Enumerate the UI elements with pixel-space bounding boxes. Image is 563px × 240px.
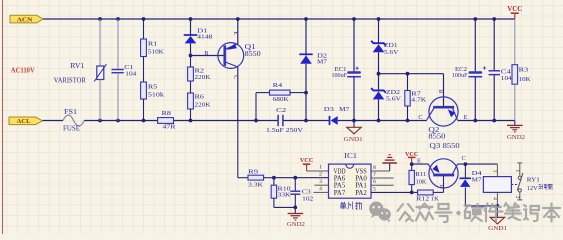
svg-text:E: E (232, 31, 238, 35)
svg-text:VCC: VCC (300, 157, 314, 164)
label RY1 12V relay (527, 177, 552, 192)
capacitor C4 104 (489, 19, 513, 121)
svg-text:ZD1: ZD1 (384, 42, 398, 49)
svg-text:8550: 8550 (443, 143, 461, 150)
svg-text:B: B (437, 90, 443, 94)
svg-text:PA5: PA5 (334, 183, 346, 190)
svg-text:220K: 220K (195, 102, 211, 109)
wire Q3 collector to relay (457, 163, 497, 165)
svg-text:1K: 1K (431, 196, 439, 203)
svg-text:102: 102 (302, 195, 313, 202)
svg-text:PA6: PA6 (334, 176, 346, 183)
resistor R6 (188, 93, 211, 121)
label microcontroller danpianji (340, 202, 362, 210)
capacitor C1 (112, 19, 138, 121)
junction dots on top rail (98, 17, 496, 21)
IC1 pin stubs right (371, 165, 412, 192)
svg-text:3.3K: 3.3K (248, 181, 263, 188)
wire C2 to D3 (284, 120, 330, 122)
svg-text:5.6V: 5.6V (386, 96, 401, 103)
svg-text:Q3: Q3 (429, 143, 441, 150)
ground for IC pin8 (382, 155, 397, 171)
svg-text:RV1: RV1 (70, 63, 84, 70)
svg-text:E: E (417, 158, 421, 165)
svg-text:104: 104 (501, 75, 513, 82)
transistor Q1 8550 (218, 31, 261, 79)
junction R11 R12 pin5 (410, 191, 414, 195)
svg-text:GND2: GND2 (507, 134, 525, 141)
svg-text:Q1: Q1 (245, 44, 256, 51)
svg-text:1: 1 (514, 170, 520, 173)
diode D1 4148 (184, 19, 213, 56)
ground GND1 right (488, 206, 507, 232)
svg-text:100uF: 100uF (452, 72, 468, 79)
svg-text:ACL: ACL (17, 118, 32, 125)
svg-text:104: 104 (125, 70, 137, 77)
wire relay bottom rail (465, 205, 497, 207)
svg-text:AC110V: AC110V (11, 65, 36, 74)
svg-text:C: C (418, 114, 422, 121)
svg-text:M7: M7 (317, 59, 328, 66)
svg-text:VSS: VSS (355, 169, 367, 176)
junction dots on bottom rail (98, 119, 409, 123)
svg-text:D3: D3 (324, 106, 335, 113)
svg-text:8550: 8550 (245, 51, 262, 58)
wire zener midpoint to R7 and Q2 base (379, 73, 444, 75)
capacitor C3 102 (290, 178, 313, 208)
IC1 pin stubs left (314, 165, 329, 193)
svg-text:IC1: IC1 (344, 152, 358, 160)
ground GND2 right (507, 121, 525, 141)
svg-text:1.5uF 250V: 1.5uF 250V (266, 127, 303, 134)
power VCC for driver (411, 157, 413, 164)
wire Q1 collector to bottom rail (237, 67, 239, 121)
svg-text:510k: 510k (148, 92, 165, 99)
svg-text:47R: 47R (163, 123, 177, 130)
svg-text:R8: R8 (162, 110, 172, 117)
relay RY1 coil (483, 164, 511, 206)
wire Q2 emitter to GND2 rail (457, 120, 514, 122)
svg-text:R4: R4 (273, 82, 283, 89)
junction R9 R10 (272, 176, 276, 180)
transistor Q3 8550 (428, 143, 465, 192)
svg-text:8550: 8550 (428, 134, 446, 141)
resistor R8 (158, 118, 174, 124)
svg-text:C: C (462, 155, 466, 162)
svg-text:8: 8 (373, 165, 376, 171)
diode D3 M7 (324, 106, 354, 125)
svg-text:PA7: PA7 (334, 190, 346, 197)
resistor R11 10K (409, 164, 427, 192)
power VCC for IC (306, 164, 308, 171)
resistor R1 (141, 19, 165, 57)
svg-text:4: 4 (319, 186, 322, 192)
junction VCC emitter (410, 162, 414, 166)
capacitor C2 1.5uF 250V (266, 107, 303, 134)
svg-text:2: 2 (319, 172, 322, 178)
svg-text:4148: 4148 (197, 33, 213, 40)
wire VCC to IC pin1 (307, 170, 329, 172)
resistor R7 4.7K (405, 74, 427, 121)
svg-text:3: 3 (319, 179, 322, 185)
svg-text:C2: C2 (276, 107, 286, 114)
resistor R5 (141, 82, 165, 121)
svg-text:33K: 33K (278, 192, 291, 199)
wire R10 C3 bottom (274, 206, 295, 208)
svg-text:12V: 12V (527, 185, 539, 192)
svg-text:6: 6 (373, 179, 376, 185)
svg-text:R9: R9 (248, 168, 259, 175)
fuse FS1 (63, 115, 84, 126)
svg-text:M7: M7 (472, 177, 483, 184)
resistor R4 680K (256, 82, 306, 121)
zener ZD1 5.6V (371, 19, 399, 74)
svg-text:R1: R1 (148, 41, 158, 48)
svg-text:FS1: FS1 (64, 109, 77, 116)
resistor R9 3.3K (248, 168, 274, 188)
svg-text:7: 7 (373, 172, 376, 178)
svg-text:B: B (438, 185, 444, 189)
svg-text:R6: R6 (195, 93, 205, 100)
wire R1 to R5 (143, 57, 145, 83)
junction zener midpoint (377, 72, 381, 76)
wire ACL to fuse (43, 120, 64, 122)
svg-text:ACN: ACN (17, 16, 33, 23)
svg-text:GND1: GND1 (344, 136, 363, 143)
wire GND1 to Q2 collector (354, 120, 427, 122)
resistor R10 33K (271, 178, 291, 208)
svg-text:C3: C3 (302, 188, 311, 195)
capacitor EC2 100uF (452, 19, 486, 121)
junction dot R4 D2 (304, 91, 308, 95)
svg-text:510K: 510K (148, 49, 164, 56)
svg-text:10K: 10K (416, 179, 427, 186)
power VCC top right (514, 13, 516, 19)
port ACL (9, 117, 43, 125)
ground GND2 middle (287, 207, 305, 227)
svg-text:4.7K: 4.7K (411, 97, 426, 104)
relay RY1 contact switch (511, 163, 523, 200)
port ACN (10, 15, 43, 23)
svg-text:VCC: VCC (507, 5, 522, 13)
svg-text:R12: R12 (416, 196, 429, 203)
svg-text:M7: M7 (339, 106, 350, 113)
svg-text:220K: 220K (195, 74, 211, 81)
svg-text:VDD: VDD (334, 169, 346, 176)
svg-text:1: 1 (319, 165, 322, 171)
resistor R12 1K (412, 190, 444, 203)
node B junction (189, 54, 193, 58)
resistor R2 (188, 56, 211, 82)
svg-text:GND2: GND2 (287, 221, 305, 228)
wire Q1 emitter to top rail (237, 19, 239, 44)
svg-text:RY1: RY1 (527, 177, 540, 184)
svg-text:4: 4 (492, 197, 498, 200)
svg-text:R5: R5 (148, 84, 158, 91)
resistor R3 10K (512, 19, 531, 121)
wire R9 to IC pin2 (274, 177, 329, 179)
svg-text:PA1: PA1 (355, 183, 367, 190)
svg-text:R3: R3 (519, 67, 529, 74)
zener ZD2 5.6V (371, 74, 401, 121)
svg-text:2: 2 (514, 196, 520, 199)
watermark wechat logo and text (369, 202, 391, 223)
diode D2 M7 (299, 19, 327, 121)
diode D4 M7 (460, 164, 483, 206)
varistor RV1 (54, 19, 107, 121)
wire top rail ACN to VCC (43, 18, 515, 20)
svg-text:5: 5 (373, 186, 376, 192)
ground GND1 left (344, 121, 363, 144)
svg-text:B: B (204, 50, 208, 57)
svg-text:PA2: PA2 (355, 190, 367, 197)
svg-text:100uF: 100uF (332, 72, 348, 79)
wire bottom rail fuse to C2 (84, 120, 157, 122)
wire VCC to Q3 emitter (412, 163, 429, 165)
svg-text:10K: 10K (519, 76, 531, 83)
svg-text:R11: R11 (415, 171, 426, 178)
wire R2 to R6 (190, 81, 192, 93)
svg-text:GND1: GND1 (488, 225, 507, 232)
wire base node to Q1 (191, 55, 226, 57)
capacitor EC1 100uF (332, 19, 361, 121)
microcontroller IC1 (329, 152, 372, 198)
transistor Q2 8550 (418, 74, 467, 141)
svg-text:PA0: PA0 (355, 176, 367, 183)
svg-text:5.6V: 5.6V (384, 49, 399, 56)
wire sample node down to R9 (237, 121, 239, 178)
svg-text:FUSE: FUSE (63, 125, 80, 132)
svg-text:680K: 680K (273, 96, 289, 103)
svg-text:3: 3 (492, 170, 498, 173)
svg-text:VARISTOR: VARISTOR (54, 78, 86, 85)
